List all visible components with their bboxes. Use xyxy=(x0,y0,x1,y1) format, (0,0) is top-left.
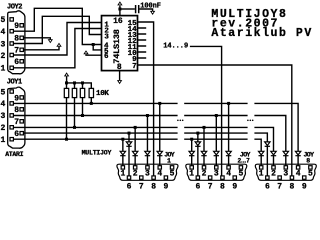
conn2 pin8 xyxy=(221,176,224,179)
wire trigger conn2 xyxy=(197,133,199,176)
svg-text:1: 1 xyxy=(120,169,125,178)
svg-text:2: 2 xyxy=(0,124,5,133)
diode conn3 pin2 xyxy=(271,151,276,155)
wire JOY2 pin2 to 74LS138 pin1 (A) xyxy=(13,23,101,56)
wire R1 to bus xyxy=(66,83,68,139)
conn3 pin7 xyxy=(278,176,281,179)
connector JOY2 (Atari port 2, DB9) body xyxy=(8,11,25,74)
wire Y7: IC pin7 to JOY8-out pin8 xyxy=(138,65,292,176)
junction rail xyxy=(73,81,76,84)
resistor R1 10K xyxy=(64,88,68,97)
svg-text:3: 3 xyxy=(104,34,109,42)
wire Y0: IC pin15 to JOY1-out pin8 xyxy=(138,22,154,176)
junction R2/bus xyxy=(73,126,76,129)
conn2 pin1 xyxy=(190,166,193,169)
conn2 pin3 xyxy=(215,166,218,169)
svg-text:2: 2 xyxy=(202,169,207,178)
conn3 pin1 xyxy=(260,166,263,169)
svg-text:5: 5 xyxy=(170,169,175,178)
svg-text:4: 4 xyxy=(0,28,5,37)
svg-text:7: 7 xyxy=(208,182,213,191)
diode conn2 pin2 xyxy=(201,151,206,155)
capacitor C1 100nF xyxy=(136,5,139,13)
wire select-pin1 conn1 xyxy=(122,139,124,166)
svg-text:2...7: 2...7 xyxy=(238,158,251,165)
diode conn1 pin1 xyxy=(120,151,125,155)
junction bus conn1 pin4 xyxy=(158,102,161,105)
junction VCC/capacitor xyxy=(118,8,121,11)
wire JOY2 pin1 to 74LS138 pin2 (B) xyxy=(13,29,101,68)
svg-text:5: 5 xyxy=(0,88,5,97)
junction trigger conn2 xyxy=(196,132,199,135)
wire junction to capacitor xyxy=(120,8,135,10)
ellipsis between output connectors 1 and 2 xyxy=(177,120,179,122)
JOY2 pin 8 xyxy=(20,36,23,39)
wire JOY2 pin7 to +5V xyxy=(23,47,59,50)
junction R3/bus xyxy=(81,114,84,117)
conn3 pin5 xyxy=(309,166,312,169)
conn1 pin1 xyxy=(121,166,124,169)
+5V symbol (JOY2 pin7) xyxy=(56,43,61,47)
JOY1 pin 2 xyxy=(10,126,13,129)
svg-text:6: 6 xyxy=(127,182,132,191)
junction bus conn2 pin4 xyxy=(227,102,230,105)
pull-up rail wire xyxy=(67,76,92,88)
junction trigger conn1 xyxy=(128,132,131,135)
svg-text:10K: 10K xyxy=(96,90,109,98)
wire trigger conn1 xyxy=(128,133,130,176)
conn1 pin3 xyxy=(146,166,149,169)
bus wire JOY1 pin6 (trigger) xyxy=(23,133,267,176)
junction R1/bus xyxy=(65,138,68,141)
junction bus conn1 pin2 xyxy=(134,126,137,129)
connector JOY-out 2 body xyxy=(186,164,247,180)
svg-text:Atariklub PV: Atariklub PV xyxy=(211,27,312,40)
svg-text:6: 6 xyxy=(265,182,270,191)
diode conn3 pin4 xyxy=(295,151,300,155)
JOY2 pin 6 xyxy=(20,60,23,63)
bus wire JOY1 pin3 (left) xyxy=(13,116,285,166)
conn3 pin9 xyxy=(303,176,306,179)
connector JOY-out 3 body xyxy=(255,164,316,180)
diode conn3 pin1 xyxy=(259,151,264,155)
svg-text:9: 9 xyxy=(302,182,307,191)
wire JOY2 pin3 to 74LS138 pin3 (C) xyxy=(13,16,101,43)
IC pin8 ground wire xyxy=(119,71,121,81)
wire select-pin1 conn2 xyxy=(191,139,193,166)
svg-text:MULTIJOY: MULTIJOY xyxy=(82,150,112,157)
conn2 pin9 xyxy=(233,176,236,179)
conn2 pin7 xyxy=(208,176,211,179)
+5V symbol (pull-up rail) xyxy=(64,72,69,76)
JOY1 pin 3 xyxy=(10,114,13,117)
junction bus conn1 pin1 xyxy=(121,138,124,141)
JOY1 pin 6 xyxy=(20,132,23,135)
svg-text:16: 16 xyxy=(113,17,123,26)
svg-text:2: 2 xyxy=(133,169,138,178)
JOY2 pin 4 xyxy=(10,30,13,33)
svg-text:JOY2: JOY2 xyxy=(7,3,22,11)
IC U1 74LS138 body xyxy=(102,16,138,71)
conn3 pin3 xyxy=(284,166,287,169)
wire R2 to bus xyxy=(74,83,76,128)
svg-text:6: 6 xyxy=(14,58,19,67)
junction bus conn2 pin3 xyxy=(215,114,218,117)
diode conn3 trigger xyxy=(265,142,270,146)
wire JOY2 pin8 to ground xyxy=(23,38,50,40)
svg-text:8: 8 xyxy=(151,182,156,191)
JOY2 pin 1 xyxy=(10,66,13,69)
diode conn2 pin1 xyxy=(189,151,194,155)
ground symbol (JOY2 pin8) xyxy=(48,39,53,43)
junction R4/bus xyxy=(90,102,93,105)
JOY1 pin 1 xyxy=(10,138,13,141)
resistor R2 10K xyxy=(72,88,76,97)
conn3 pin4 xyxy=(296,166,299,169)
JOY1 pin 9 xyxy=(20,96,23,99)
diode conn3 pin3 xyxy=(283,151,288,155)
svg-text:7: 7 xyxy=(277,182,282,191)
conn3 pin8 xyxy=(290,176,293,179)
svg-text:6: 6 xyxy=(104,53,109,61)
conn1 pin5 xyxy=(170,166,173,169)
svg-text:4: 4 xyxy=(226,169,231,178)
diode conn1 pin2 xyxy=(132,151,137,155)
JOY2 pin 3 xyxy=(10,42,13,45)
wire Y1-Y6 bundle to JOY2...7-out pin8 xyxy=(190,46,222,176)
conn2 pin4 xyxy=(227,166,230,169)
conn2 pin6 xyxy=(196,176,199,179)
wire R4 to bus xyxy=(90,98,92,104)
svg-text:1: 1 xyxy=(0,65,5,74)
svg-text:9: 9 xyxy=(163,182,168,191)
resistor R4 10K xyxy=(89,88,93,97)
svg-text:7: 7 xyxy=(14,47,19,56)
svg-text:8: 8 xyxy=(290,182,295,191)
svg-text:1: 1 xyxy=(167,157,171,164)
JOY1 pin 4 xyxy=(10,102,13,105)
JOY1 pin 8 xyxy=(20,108,23,111)
svg-text:3: 3 xyxy=(145,169,150,178)
svg-text:2: 2 xyxy=(271,169,276,178)
svg-text:1: 1 xyxy=(0,136,5,145)
svg-text:8: 8 xyxy=(14,35,19,44)
svg-text:3: 3 xyxy=(0,112,5,121)
JOY2 pin 2 xyxy=(10,53,13,56)
diode conn2 trigger xyxy=(195,142,200,146)
svg-text:3: 3 xyxy=(0,40,5,49)
+5V symbol (IC pin16) xyxy=(117,1,122,5)
bus wire JOY1 pin2 (down) xyxy=(13,127,273,165)
wire JOY2 pin4 to 74LS138 pins 4+5 (enable) xyxy=(13,8,101,50)
JOY2 pin 5 xyxy=(10,18,13,21)
ground symbol (IC pin8) xyxy=(117,80,122,84)
svg-text:8: 8 xyxy=(220,182,225,191)
svg-text:7: 7 xyxy=(14,118,19,127)
svg-text:5: 5 xyxy=(238,169,243,178)
junction bus conn1 pin3 xyxy=(146,114,149,117)
svg-text:9: 9 xyxy=(14,94,19,103)
svg-text:4: 4 xyxy=(296,169,301,178)
diode conn1 pin3 xyxy=(145,151,150,155)
svg-text:4: 4 xyxy=(157,169,162,178)
svg-text:2: 2 xyxy=(0,52,5,61)
svg-text:4: 4 xyxy=(0,100,5,109)
IC pins 14-9 stubs xyxy=(138,28,147,58)
JOY1 pin 5 xyxy=(10,90,13,93)
wire select-pin3 conn1 xyxy=(146,116,148,166)
diode conn2 pin4 xyxy=(226,151,231,155)
svg-text:ATARI: ATARI xyxy=(5,151,23,158)
connector JOY1 (Atari port 1, DB9) body xyxy=(8,87,25,148)
svg-text:1: 1 xyxy=(189,169,194,178)
junction IC pin4/pin5 xyxy=(92,43,95,46)
wire select-pin4 conn2 xyxy=(228,103,230,165)
bus wire JOY1 pin1 (up) xyxy=(13,139,261,166)
junction bus conn2 pin1 xyxy=(190,138,193,141)
connector JOY-out 1 body xyxy=(117,164,178,180)
junction rail xyxy=(81,81,84,84)
svg-text:9: 9 xyxy=(232,182,237,191)
conn3 pin6 xyxy=(266,176,269,179)
svg-text:5: 5 xyxy=(0,16,5,25)
svg-text:3: 3 xyxy=(283,169,288,178)
wire select-pin2 conn1 xyxy=(134,127,136,165)
svg-text:3: 3 xyxy=(214,169,219,178)
svg-text:74LS138: 74LS138 xyxy=(112,29,122,63)
wire +5V to IC pin6 xyxy=(86,54,102,55)
wire select-pin3 conn2 xyxy=(215,116,217,166)
conn1 pin2 xyxy=(133,166,136,169)
svg-text:7: 7 xyxy=(132,63,137,71)
diode conn1 pin4 xyxy=(157,151,162,155)
resistor R3 10K xyxy=(80,88,84,97)
JOY1 pin 7 xyxy=(20,120,23,123)
junction bus conn2 pin2 xyxy=(203,126,206,129)
conn1 pin7 xyxy=(140,176,143,179)
ellipsis between output connectors 2 and 3 xyxy=(247,120,249,122)
conn1 pin9 xyxy=(164,176,167,179)
svg-text:6: 6 xyxy=(14,130,19,139)
conn3 pin2 xyxy=(272,166,275,169)
svg-text:6: 6 xyxy=(195,182,200,191)
svg-text:JOY1: JOY1 xyxy=(7,78,22,86)
junction rail xyxy=(65,81,68,84)
+5V symbol to 74LS138 pin6 (G1) xyxy=(83,50,88,54)
conn1 pin8 xyxy=(152,176,155,179)
wire R3 to bus xyxy=(82,83,84,116)
conn2 pin5 xyxy=(239,166,242,169)
svg-text:7: 7 xyxy=(139,182,144,191)
svg-text:14...9: 14...9 xyxy=(163,42,188,50)
JOY2 pin 7 xyxy=(20,48,23,51)
IC pin16 VCC wire xyxy=(119,6,121,16)
svg-text:8: 8 xyxy=(14,106,19,115)
svg-text:9: 9 xyxy=(14,22,19,31)
conn1 pin6 xyxy=(127,176,130,179)
conn1 pin4 xyxy=(158,166,161,169)
wire capacitor to ground xyxy=(139,9,152,11)
JOY2 pin 9 xyxy=(20,24,23,27)
diode conn2 pin3 xyxy=(214,151,219,155)
svg-text:5: 5 xyxy=(308,169,313,178)
ground symbol (capacitor) xyxy=(150,11,155,15)
wire select-pin4 conn1 xyxy=(159,103,161,165)
wire select-pin2 conn2 xyxy=(203,127,205,165)
conn2 pin2 xyxy=(202,166,205,169)
bus wire JOY1 pin4 (right) xyxy=(13,103,298,165)
diode conn1 trigger xyxy=(126,142,131,146)
svg-text:8: 8 xyxy=(306,157,310,164)
svg-text:1: 1 xyxy=(259,169,264,178)
